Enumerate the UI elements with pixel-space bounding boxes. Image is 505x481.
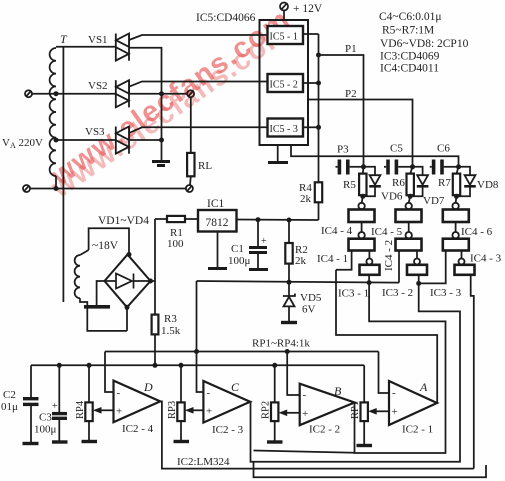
svg-text:IC4 - 5: IC4 - 5: [371, 226, 403, 238]
analog switch IC5-3: [268, 119, 304, 137]
node bus IC5-3: [316, 125, 321, 130]
svg-text:IC5 - 1: IC5 - 1: [270, 32, 298, 43]
capacitor C6: [430, 166, 432, 168]
svg-text:A: A: [419, 380, 428, 394]
wire bridge bottom lead: [126, 307, 128, 331]
svg-text:T: T: [60, 32, 68, 46]
node bus IC5-2: [316, 81, 321, 86]
svg-text:RP1~RP4:1k: RP1~RP4:1k: [252, 338, 310, 350]
svg-text:+: +: [392, 406, 398, 418]
wire rail1 to A minus: [379, 352, 390, 394]
svg-text:100μ: 100μ: [228, 255, 251, 267]
svg-text:R5~R7:1M: R5~R7:1M: [382, 25, 434, 37]
wire IC4-3 to IC3-3 bubble: [461, 251, 463, 259]
IC5 outer box: [260, 20, 309, 145]
wire R2 top lead: [288, 220, 290, 243]
opamp A: [389, 381, 437, 425]
wire to IC4-4 bubble: [362, 196, 363, 203]
wire C output loop to IC3-2: [250, 283, 460, 461]
wire IC1 ground pin: [217, 232, 219, 268]
NAND gate IC4-1: [349, 239, 375, 251]
wire transformer top to VS1: [56, 46, 116, 48]
svg-text:IC2 - 1: IC2 - 1: [402, 424, 433, 436]
regulator IC1 7812: [198, 210, 237, 232]
svg-text:6V: 6V: [302, 304, 316, 316]
wire VS1 gate: [129, 35, 268, 40]
wire rail1 to B minus: [287, 352, 300, 396]
svg-text:-: -: [392, 387, 396, 399]
node column2: [410, 164, 415, 169]
svg-text:+ 12V: + 12V: [293, 3, 323, 15]
wire P3: [291, 145, 459, 167]
ground bridge: [84, 305, 110, 309]
wire rail1: [105, 351, 379, 353]
node column1: [361, 164, 366, 169]
wire P1: [319, 55, 364, 167]
node tap VS3: [54, 138, 59, 143]
resistor RL: [187, 153, 194, 176]
node rail2 RP4: [87, 363, 92, 368]
svg-text:VA 220V: VA 220V: [2, 137, 43, 150]
svg-text:VD5: VD5: [300, 292, 322, 304]
svg-text:VD1~VD4: VD1~VD4: [98, 215, 149, 227]
wire bridge to R1: [155, 218, 167, 220]
svg-text:RP4: RP4: [75, 400, 86, 419]
bridge internal diode: [105, 280, 117, 282]
bubble IC4-1 input: [358, 232, 364, 238]
node winding bottom: [54, 186, 59, 191]
svg-text:+: +: [302, 408, 308, 420]
bubble IC4-2 input: [406, 232, 412, 238]
wire IC3-2 output: [418, 275, 420, 284]
wire P2: [308, 100, 413, 167]
svg-text:+: +: [261, 236, 267, 247]
wire bridge top lead: [89, 228, 129, 254]
resistor R5: [362, 167, 365, 174]
capacitor C5: [384, 166, 386, 168]
svg-text:-: -: [303, 389, 307, 401]
wire tap to VS2: [32, 93, 116, 95]
svg-text:IC4 - 4: IC4 - 4: [321, 225, 353, 237]
resistor R4: [315, 182, 322, 202]
node VS3 output on bus: [159, 138, 164, 143]
svg-text:2k: 2k: [295, 255, 307, 267]
bubble IC3-1 input: [366, 259, 372, 265]
wire IC5 output bus: [318, 34, 320, 182]
bubble IC3-3 input: [459, 259, 465, 265]
potentiometer RP1: [363, 365, 365, 402]
svg-text:IC4 - 1: IC4 - 1: [317, 253, 348, 265]
capacitor C2: [30, 365, 32, 397]
svg-text:2k: 2k: [300, 193, 312, 205]
wire RL top lead: [190, 97, 192, 153]
svg-text:IC2 - 3: IC2 - 3: [212, 424, 244, 436]
wire IC5-2 output: [303, 82, 319, 84]
svg-text:R5: R5: [343, 179, 356, 191]
diode VD6: [364, 167, 376, 175]
ground RP2: [267, 440, 283, 443]
NAND gate IC4-4: [349, 210, 375, 223]
svg-text:VS1: VS1: [88, 34, 108, 46]
wire IC3-1 output: [368, 275, 370, 283]
svg-text:-: -: [207, 387, 211, 399]
svg-text:IC5 - 2: IC5 - 2: [270, 80, 298, 91]
node rail2 RP3: [179, 363, 184, 368]
wire R1 to IC1: [185, 218, 198, 220]
node rail1 C: [194, 349, 199, 354]
terminal RL top: [187, 90, 194, 97]
wire IC4-5 to bubble: [408, 222, 410, 232]
diode VD8: [459, 167, 471, 175]
svg-text:IC3:CD4069: IC3:CD4069: [380, 51, 440, 63]
terminal +12V: [280, 3, 288, 11]
svg-text:C2: C2: [3, 389, 16, 401]
svg-text:VS2: VS2: [88, 80, 108, 92]
NAND gate IC4-2: [396, 239, 422, 251]
bubble IC4-3 input: [452, 232, 458, 238]
svg-text:P2: P2: [345, 88, 357, 100]
terminal RL bottom: [186, 185, 193, 192]
ground VD5: [281, 321, 297, 324]
svg-text:C5: C5: [390, 143, 403, 155]
wire IC4-6 to bubble: [455, 222, 457, 232]
svg-text:7812: 7812: [206, 217, 229, 229]
watermark www.elecfans.com main: [46, 3, 298, 193]
wire IC4-4 to bubble: [361, 222, 363, 232]
wire IC5-1 output: [303, 33, 319, 35]
svg-text:+: +: [52, 401, 58, 412]
svg-text:100: 100: [167, 238, 184, 250]
svg-text:100μ: 100μ: [34, 424, 57, 436]
capacitor C3: [58, 365, 60, 412]
svg-text:IC5 - 3: IC5 - 3: [270, 124, 298, 135]
svg-text:IC4:CD4011: IC4:CD4011: [380, 63, 439, 75]
thyristor VS3: [116, 127, 129, 154]
svg-text:VD6~VD8: 2CP10: VD6~VD8: 2CP10: [380, 38, 469, 50]
node column3: [456, 164, 461, 169]
wire IC4-2 to IC3-2 bubble: [416, 251, 418, 259]
wire stub y450: [254, 451, 355, 453]
wire IC4-2 left pin riser: [398, 251, 400, 283]
terminal upper left: [25, 90, 32, 97]
node bus P1: [316, 53, 321, 58]
wire winding bottom lead: [55, 176, 57, 189]
svg-text:C: C: [231, 380, 240, 394]
node R6 VD7 bottom: [408, 194, 413, 199]
svg-text:C6: C6: [437, 143, 450, 155]
node tap VS2: [54, 91, 59, 96]
ground C3: [52, 440, 68, 443]
wire VS2 output: [129, 93, 187, 95]
resistor R7: [457, 167, 459, 174]
NAND gate IC4-6: [443, 210, 469, 223]
wire to IC4-5 bubble: [409, 196, 411, 203]
svg-text:IC2:LM324: IC2:LM324: [177, 456, 230, 468]
svg-text:VS3: VS3: [85, 126, 105, 138]
wire to IC4-6 bubble: [455, 196, 458, 203]
node IC3-2 output: [416, 281, 421, 286]
svg-text:P1: P1: [345, 43, 357, 55]
svg-text:VD6: VD6: [381, 191, 403, 203]
opamp B: [300, 384, 355, 426]
svg-text:IC3 - 3: IC3 - 3: [430, 287, 462, 299]
svg-text:VD8: VD8: [477, 179, 499, 191]
resistor R2: [285, 243, 292, 264]
wire 18V winding bottom lead: [80, 298, 127, 331]
node rail2 C3: [57, 363, 62, 368]
node rail2 RP2: [272, 363, 277, 368]
wire A output loop to IC4-1: [336, 270, 437, 403]
opamp D: [114, 381, 161, 423]
bubble IC4-5 input: [406, 203, 412, 209]
wire IC3-2 to IC4-3 pin: [419, 251, 446, 284]
svg-text:IC3 - 1: IC3 - 1: [338, 288, 369, 300]
resistor R1: [167, 216, 185, 222]
svg-text:IC4 - 2: IC4 - 2: [383, 240, 395, 271]
node VS2 output on bus: [159, 91, 164, 96]
node rail2 R3: [153, 363, 158, 368]
node IC3-1 output: [367, 280, 372, 285]
svg-text:IC4 - 6: IC4 - 6: [461, 226, 493, 238]
svg-text:RP3: RP3: [167, 401, 178, 419]
ground under thyristor bus: [152, 162, 170, 166]
capacitor C1: [257, 220, 259, 246]
node bridge bottom: [125, 305, 130, 310]
wire rail1 to D minus: [105, 352, 114, 393]
bubble IC4-4 input: [358, 203, 364, 209]
wire +12V rail from IC1: [237, 219, 319, 222]
svg-text:B: B: [334, 384, 342, 398]
ground RP1: [357, 444, 373, 447]
svg-text:~18V: ~18V: [92, 240, 119, 252]
wire bridge to R3: [154, 281, 156, 315]
svg-text:C1: C1: [231, 243, 244, 255]
svg-text:IC1: IC1: [207, 198, 225, 210]
wire rail2: [31, 364, 364, 366]
capacitor C4: [336, 166, 338, 168]
ground IC5: [277, 145, 279, 162]
wire B output loop to IC3-1: [355, 283, 446, 453]
wire bridge right riser: [151, 219, 156, 281]
transformer T primary winding: [50, 48, 56, 176]
svg-text:01μ: 01μ: [1, 401, 18, 413]
ground RP4: [82, 440, 98, 443]
node R5 VD6 bottom: [360, 194, 365, 199]
svg-text:IC2 - 4: IC2 - 4: [122, 423, 154, 435]
wire R4 bottom to 12V rail: [318, 202, 320, 220]
wire control line y282: [197, 281, 400, 283]
svg-text:IC4 - 3: IC4 - 3: [470, 253, 502, 265]
wire IC5-3 output: [303, 126, 319, 128]
zener VD5: [288, 282, 290, 296]
potentiometer RP2: [274, 365, 276, 402]
svg-text:1.5k: 1.5k: [161, 325, 181, 337]
svg-text:R6: R6: [392, 177, 405, 189]
wire bottom rail: [30, 188, 186, 190]
potentiometer RP3: [180, 365, 182, 402]
node bridge right: [148, 279, 153, 284]
diode VD7: [413, 167, 423, 175]
thyristor VS2: [116, 80, 129, 107]
svg-text:RP1: RP1: [350, 401, 361, 419]
node rail1 B: [285, 349, 290, 354]
terminal lower left: [23, 185, 30, 192]
wire IC4-1 to IC3-1 bubble: [368, 251, 370, 259]
svg-text:+: +: [116, 406, 122, 418]
inverter IC3-1: [360, 265, 380, 275]
inverter IC3-2: [407, 265, 427, 275]
svg-text:R7: R7: [438, 177, 451, 189]
wire transformer secondary line: [62, 47, 64, 302]
svg-text:IC5:CD4066: IC5:CD4066: [196, 12, 256, 24]
ground RP3: [174, 440, 190, 443]
wire inverting bus left edge: [197, 281, 204, 392]
NAND gate IC4-5: [396, 210, 422, 223]
svg-text:IC2 - 2: IC2 - 2: [309, 424, 340, 436]
transformer secondary 18V winding: [75, 250, 89, 298]
svg-text:P3: P3: [337, 144, 349, 156]
bubble IC3-2 input: [414, 259, 420, 265]
wire VS3 output: [129, 139, 162, 141]
wire +12V to IC5 box: [283, 11, 285, 21]
svg-text:VD7: VD7: [423, 195, 445, 207]
node R7 VD8 bottom: [454, 194, 459, 199]
inverter IC3-3: [455, 265, 475, 275]
svg-text:D: D: [143, 380, 153, 394]
bridge rectifier VD1-VD4: [105, 255, 151, 308]
ground IC1: [208, 267, 227, 270]
wire VS3 gate: [129, 127, 268, 133]
potentiometer RP4: [88, 365, 90, 402]
svg-text:RL: RL: [198, 160, 212, 172]
wire bridge left to ground: [97, 281, 105, 305]
node bridge top: [127, 252, 132, 257]
svg-text:R3: R3: [164, 313, 177, 325]
wire VS1 output to bus: [129, 48, 162, 161]
svg-text:IC3 - 2: IC3 - 2: [382, 287, 413, 299]
node R2 VD5: [287, 280, 292, 285]
NAND gate IC4-3: [443, 239, 469, 251]
svg-text:RP2: RP2: [261, 401, 272, 419]
wire tap to VS3: [56, 139, 116, 141]
analog switch IC5-1: [268, 26, 304, 44]
resistor R3: [152, 315, 159, 335]
thyristor VS1: [116, 34, 129, 61]
resistor R6: [410, 167, 412, 174]
analog switch IC5-2: [268, 74, 304, 92]
wire IC3-3 output jog: [471, 275, 474, 469]
node C1 tap: [256, 217, 261, 222]
svg-text:C3: C3: [39, 412, 52, 424]
svg-text:C4~C6:0.01μ: C4~C6:0.01μ: [379, 11, 442, 23]
wire R3 bottom lead: [154, 334, 156, 365]
wire outer bottom: [254, 462, 487, 478]
svg-text:+: +: [206, 406, 212, 418]
wire R2 bottom lead: [288, 264, 290, 283]
ground C1: [249, 268, 268, 271]
wire RL bottom lead: [189, 176, 192, 185]
wire D output loop to IC3-3: [160, 401, 474, 468]
bubble IC4-6 input: [452, 203, 458, 209]
svg-text:-: -: [117, 387, 121, 399]
opamp C: [203, 381, 250, 423]
ground C2: [23, 442, 39, 445]
wire IC4-1 left pin to A line: [336, 251, 352, 270]
node R2 tap: [287, 218, 292, 223]
wire VS2 gate: [129, 82, 268, 87]
